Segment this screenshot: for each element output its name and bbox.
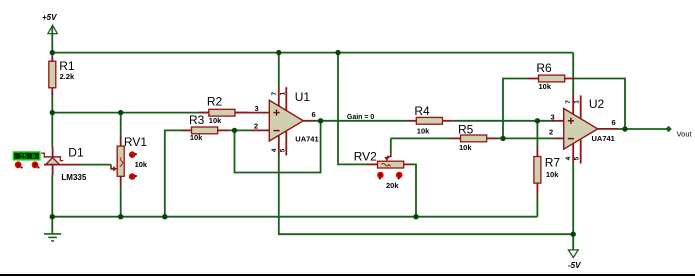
svg-text:10k: 10k — [546, 170, 559, 179]
svg-text:LM335: LM335 — [61, 173, 86, 182]
junction node -5V — [571, 232, 576, 237]
wire R5 to U2 pin2 — [497, 137, 554, 139]
svg-text:25.0: 25.0 — [20, 153, 36, 160]
potentiometer RV1 — [111, 135, 148, 187]
svg-text:D1: D1 — [68, 145, 84, 159]
wire RV2 wiper riser — [390, 138, 392, 152]
D1 value display — [13, 152, 39, 160]
junction node +5V left — [50, 50, 55, 55]
wire U1 pin7 riser to +5V rail — [278, 53, 280, 87]
RV2 increment button — [377, 172, 384, 180]
svg-text:U2: U2 — [589, 97, 605, 111]
svg-text:R7: R7 — [545, 155, 561, 169]
svg-text:7: 7 — [565, 100, 572, 104]
wire R3 left to ground rail — [165, 130, 182, 216]
D1 increment button — [15, 161, 23, 168]
svg-text:10k: 10k — [190, 133, 203, 142]
svg-text:2.2k: 2.2k — [60, 72, 75, 81]
svg-text:R6: R6 — [536, 61, 552, 75]
svg-text:1: 1 — [279, 92, 286, 96]
junction node U1 pin2 — [232, 128, 237, 133]
svg-text:6: 6 — [312, 110, 316, 119]
wire U1 feedback loop — [235, 121, 321, 173]
svg-text:R1: R1 — [59, 59, 75, 73]
svg-text:UA741: UA741 — [295, 134, 318, 143]
junction node RV1 bottom — [118, 214, 123, 219]
junction node R7 top — [535, 118, 540, 123]
wire wiper to R5 — [391, 137, 451, 139]
resistor R6 — [529, 61, 575, 91]
wire RV2 right to ground rail — [409, 164, 416, 216]
wire RV1 top lead — [120, 113, 122, 137]
svg-text:6: 6 — [612, 118, 616, 127]
wire R6 left leg — [503, 79, 529, 139]
wire +5V rail down to RV2 left — [338, 53, 367, 165]
svg-text:UA741: UA741 — [592, 134, 615, 143]
power +5V symbol — [48, 25, 57, 52]
resistor R2 — [199, 94, 245, 125]
svg-text:2: 2 — [254, 121, 258, 130]
svg-text:3: 3 — [255, 104, 259, 113]
wire U2 pin4 down to -5V junction — [572, 163, 574, 234]
resistor R1 — [49, 53, 75, 97]
op-amp U2 — [549, 95, 618, 164]
junction node U1 output — [318, 118, 323, 123]
D1 decrement button — [32, 161, 40, 168]
junction node U1 pin7 riser — [276, 50, 281, 55]
svg-text:-5V: -5V — [568, 261, 581, 270]
svg-text:5: 5 — [574, 156, 581, 160]
wire U1 output to R4 — [314, 120, 407, 122]
svg-text:U1: U1 — [295, 90, 311, 104]
svg-text:3: 3 — [551, 113, 555, 122]
svg-text:4: 4 — [565, 156, 572, 160]
svg-text:10k: 10k — [539, 82, 552, 91]
wire top +5V rail — [52, 52, 573, 54]
wire V+ drop to U2 pin7 — [572, 53, 574, 95]
resistor R4 — [406, 104, 452, 135]
junction node U2 output — [622, 126, 627, 131]
svg-text:R2: R2 — [207, 94, 223, 108]
wire U2 output to Vout terminal — [617, 128, 669, 130]
resistor R5 — [451, 122, 497, 152]
svg-text:10k: 10k — [209, 116, 222, 125]
svg-text:R3: R3 — [189, 113, 205, 127]
RV1 increment button — [129, 151, 137, 158]
svg-text:4: 4 — [271, 148, 278, 152]
junction node ground left — [50, 214, 55, 219]
wire ground rail — [52, 216, 537, 218]
svg-text:10k: 10k — [135, 160, 148, 169]
resistor R7 — [534, 147, 560, 194]
wire R6 right to U2 output — [575, 79, 626, 130]
junction node sensor left — [50, 110, 55, 115]
junction node R3 ground — [162, 214, 167, 219]
svg-text:2: 2 — [549, 127, 553, 136]
wire U1 pin4 down to -5V line — [279, 155, 573, 234]
power -5V symbol — [568, 250, 578, 258]
RV2 decrement button — [396, 172, 403, 180]
ground — [44, 217, 61, 241]
svg-text:Vout: Vout — [677, 129, 693, 138]
svg-text:20k: 20k — [386, 181, 399, 190]
wire -5V stem — [572, 234, 574, 250]
RV1 decrement button — [129, 173, 137, 180]
junction node RV2 feed — [335, 50, 340, 55]
svg-text:10k: 10k — [459, 143, 472, 152]
junction node U2 pin2 — [500, 136, 505, 141]
wire R3 right to U1 pin2 — [228, 129, 253, 131]
svg-text:1: 1 — [574, 100, 581, 104]
wire D1 adj to RV1 wiper — [79, 164, 111, 166]
potentiometer RV2 — [354, 150, 410, 190]
resistor R3 — [182, 113, 228, 142]
op-amp U1 — [244, 87, 319, 156]
svg-text:+5V: +5V — [42, 13, 57, 22]
svg-text:R5: R5 — [458, 122, 474, 136]
wire R7 bottom to ground rail — [536, 194, 538, 217]
wire U2 pin3 node down to R7 — [536, 121, 538, 147]
wire left rail D1 to ground rail — [51, 175, 53, 217]
terminal Vout — [665, 126, 671, 132]
svg-text:RV2: RV2 — [354, 150, 377, 164]
svg-text:10k: 10k — [417, 126, 430, 135]
svg-text:RV1: RV1 — [124, 135, 147, 149]
wire R4 to U2 pin3 — [453, 120, 554, 122]
svg-text:7: 7 — [271, 92, 278, 96]
wire sensor node y=112.6 to R2 and U1 pin3 — [52, 112, 248, 114]
diode D1 LM335 — [41, 145, 87, 182]
svg-text:5: 5 — [279, 148, 286, 152]
sheet border bottom — [0, 274, 695, 276]
wire left rail R1 to node — [51, 96, 53, 147]
svg-text:R4: R4 — [414, 104, 430, 118]
svg-text:Gain = 0: Gain = 0 — [347, 114, 375, 121]
junction node RV2 ground — [413, 214, 418, 219]
wire RV1 bottom to ground rail — [120, 186, 122, 217]
junction node RV1 top — [118, 110, 123, 115]
